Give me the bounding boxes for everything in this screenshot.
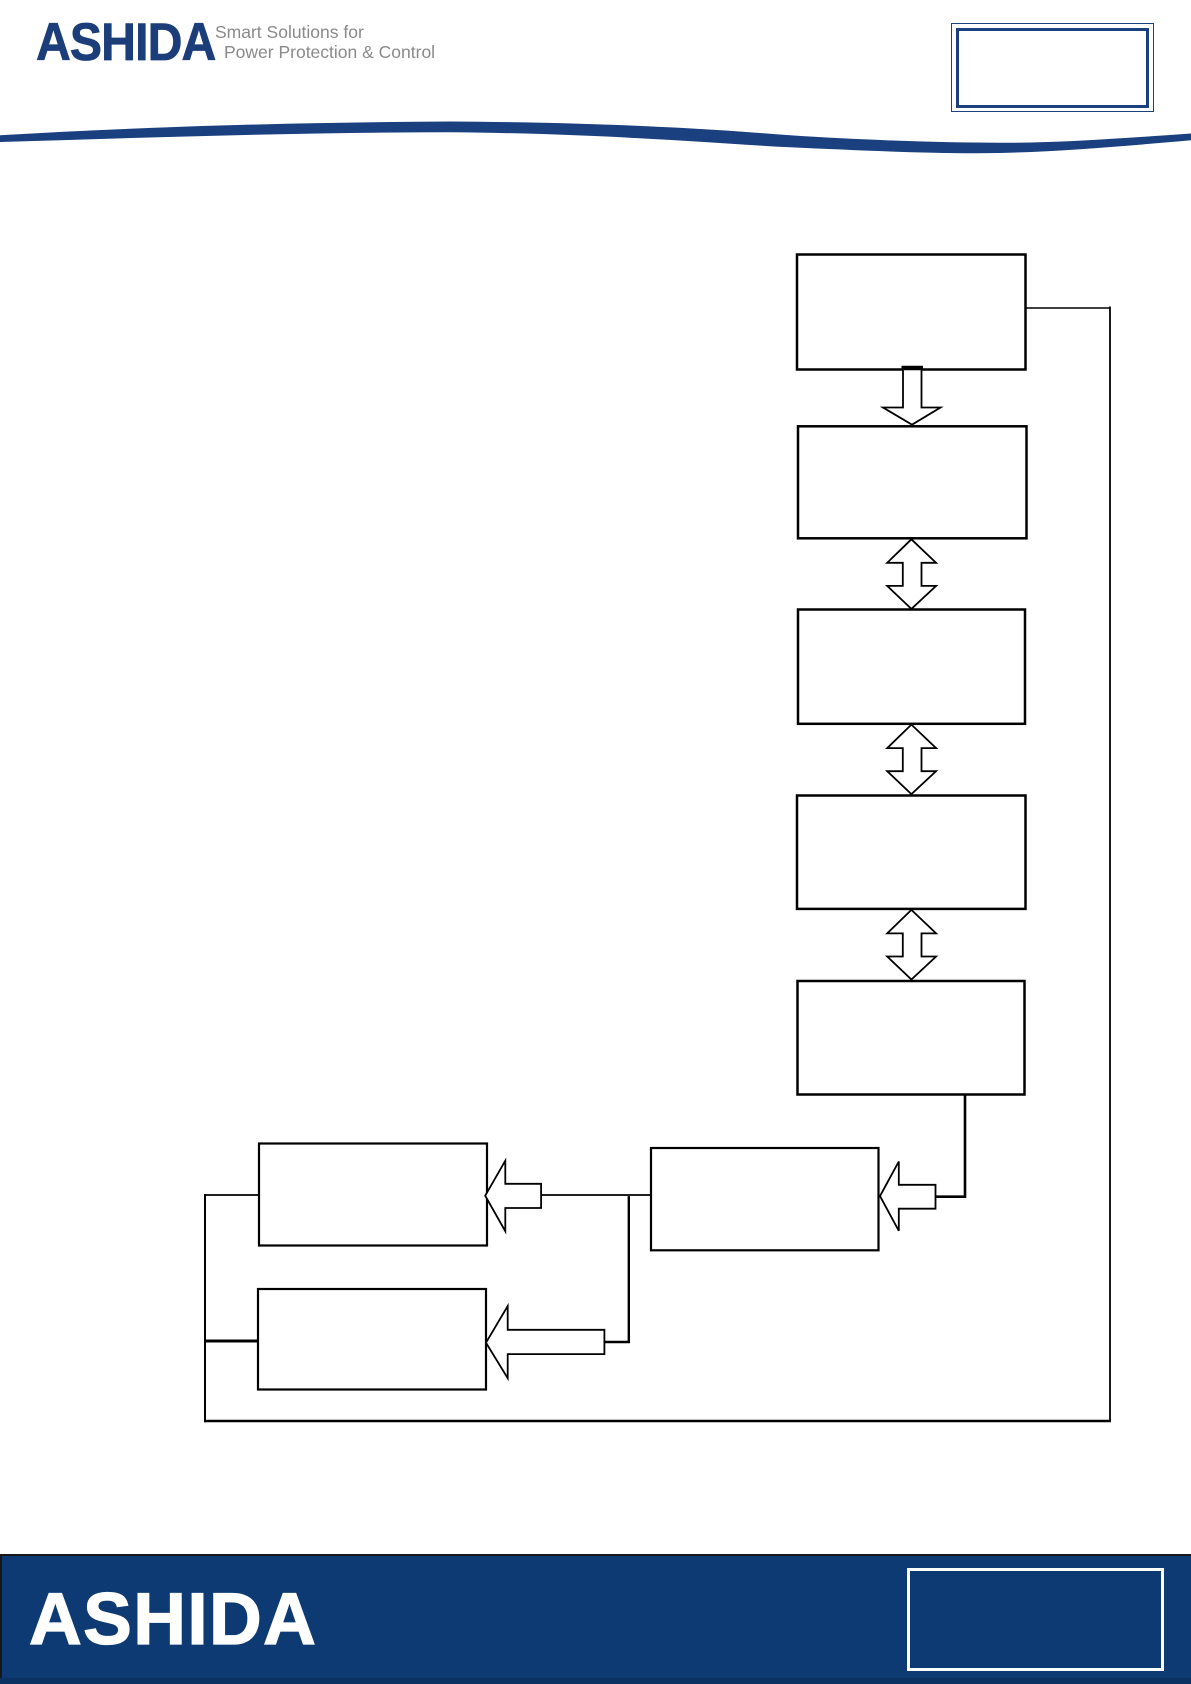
box A (mid-left upper) <box>259 1144 487 1246</box>
box B (mid-left lower) <box>258 1289 486 1390</box>
footer ASHIDA wordmark <box>29 1578 317 1661</box>
footer white border box <box>907 1568 1164 1671</box>
wire from box1 right to right rail <box>1026 307 1111 309</box>
wire stub into box B <box>204 1340 258 1343</box>
block double arrow between box2 and box3 <box>887 539 936 609</box>
box 2 <box>798 426 1027 538</box>
wire from box5 bottom down-left to arrow C tail <box>936 1095 966 1197</box>
footer band bottom shade <box>0 1678 1191 1684</box>
box 4 <box>797 796 1026 909</box>
header top-right double border box <box>951 23 1154 112</box>
ASHIDA header logo text <box>36 12 215 73</box>
block arrow left into box C <box>880 1162 936 1231</box>
wire stub into box A <box>204 1194 259 1196</box>
header tagline <box>215 23 435 62</box>
block double arrow between box4 and box5 <box>887 910 936 980</box>
footer blue band <box>0 1554 1191 1684</box>
block double arrow between box3 and box4 <box>887 725 936 795</box>
wire left rail vertical <box>204 1194 206 1422</box>
arrow shaft collar on box1 bottom border <box>902 366 924 371</box>
wire drop from horizontal to arrow B tail <box>603 1196 629 1342</box>
wire bottom rail <box>204 1420 1111 1422</box>
box 5 <box>798 981 1025 1095</box>
wire from arrow A tail to box C left edge <box>540 1194 651 1196</box>
wire right rail vertical <box>1109 307 1111 1422</box>
header swoosh ribbon <box>0 122 1191 154</box>
box 3 <box>798 610 1025 724</box>
box C (center) <box>651 1148 879 1250</box>
block arrow left into box B <box>486 1306 604 1378</box>
box 1 <box>797 255 1026 370</box>
block arrow down from box1 to box2 <box>883 368 941 425</box>
block arrow left into box A <box>485 1161 541 1232</box>
